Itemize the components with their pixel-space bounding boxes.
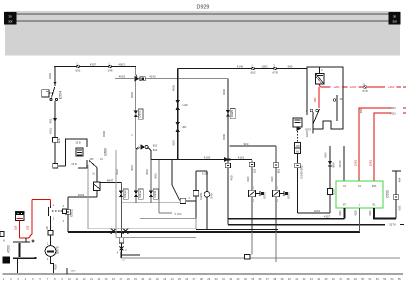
svg-text:4002: 4002	[172, 85, 176, 91]
svg-text:+201: +201	[333, 85, 340, 89]
svg-text:678: 678	[272, 71, 277, 75]
svg-text:4103: 4103	[173, 140, 176, 146]
svg-text:884: 884	[332, 162, 336, 167]
svg-text:481: 481	[49, 118, 53, 123]
svg-text:4003: 4003	[118, 62, 125, 66]
svg-text:401: 401	[182, 125, 187, 129]
svg-text:D925: D925	[230, 110, 234, 118]
svg-text:+201: +201	[388, 85, 395, 89]
svg-text:+251: +251	[390, 112, 396, 115]
svg-text:30: 30	[9, 14, 13, 18]
svg-text:862: 862	[277, 168, 281, 173]
svg-text:4301: 4301	[49, 128, 53, 134]
svg-text:D922: D922	[138, 110, 142, 118]
svg-text:601: 601	[75, 69, 80, 73]
svg-text:1 E8: 1 E8	[182, 103, 188, 107]
svg-text:15 R: 15 R	[71, 162, 77, 166]
svg-text:116: 116	[57, 138, 61, 143]
svg-text:D912: D912	[138, 190, 142, 198]
svg-text:810: 810	[153, 148, 158, 152]
svg-text:D913: D913	[123, 190, 127, 198]
svg-text:678: 678	[362, 89, 367, 93]
svg-text:150: 150	[26, 225, 30, 230]
svg-text:48: 48	[45, 226, 49, 229]
svg-text:15 B: 15 B	[75, 141, 81, 145]
svg-text:5 180: 5 180	[175, 212, 182, 216]
svg-text:A500: A500	[7, 245, 11, 253]
svg-text:602: 602	[250, 71, 255, 75]
svg-text:150: 150	[14, 225, 18, 230]
svg-text:810: 810	[153, 143, 158, 147]
svg-text:540: 540	[210, 193, 214, 198]
svg-text:4161: 4161	[238, 155, 245, 159]
svg-text:D500: D500	[386, 190, 390, 198]
svg-text:146: 146	[107, 69, 112, 73]
svg-text:30: 30	[393, 14, 397, 18]
svg-text:4103: 4103	[204, 155, 211, 159]
svg-text:682: 682	[398, 205, 402, 210]
svg-text:4157: 4157	[324, 214, 331, 218]
svg-text:4201: 4201	[314, 209, 321, 213]
svg-text:15V: 15V	[89, 158, 94, 161]
svg-text:G606: G606	[104, 148, 108, 156]
svg-text:484: 484	[398, 177, 402, 182]
svg-text:4147: 4147	[324, 152, 328, 158]
svg-text:31115: 31115	[338, 160, 342, 167]
svg-text:4140: 4140	[237, 64, 244, 68]
svg-text:4002: 4002	[222, 89, 226, 95]
svg-text:4110: 4110	[369, 210, 372, 216]
svg-text:4003: 4003	[78, 193, 85, 197]
svg-text:30f: 30f	[392, 20, 396, 24]
svg-text:G345 882: G345 882	[300, 165, 304, 179]
svg-text:4116: 4116	[355, 210, 358, 216]
svg-text:D911: D911	[153, 190, 157, 197]
svg-text:3115: 3115	[247, 176, 250, 182]
svg-text:116: 116	[253, 168, 257, 173]
svg-text:4501: 4501	[130, 165, 134, 171]
svg-text:G352: G352	[70, 209, 74, 217]
svg-text:4510: 4510	[153, 173, 157, 179]
svg-text:D929: D929	[197, 5, 210, 11]
svg-text:4142: 4142	[149, 75, 156, 79]
svg-text:15R: 15R	[313, 97, 317, 102]
svg-text:4502: 4502	[145, 169, 149, 175]
svg-text:4350: 4350	[54, 264, 58, 270]
svg-text:4112: 4112	[339, 210, 342, 216]
svg-text:E554: E554	[59, 91, 63, 99]
svg-text:+891: +891	[390, 107, 396, 110]
svg-text:30A: 30A	[372, 184, 377, 188]
svg-text:4302: 4302	[48, 73, 52, 79]
svg-text:4500: 4500	[222, 134, 226, 140]
svg-text:4307: 4307	[90, 62, 97, 66]
svg-text:15R1: 15R1	[354, 159, 358, 166]
svg-text:138: 138	[296, 145, 301, 148]
svg-text:8071: 8071	[286, 192, 290, 199]
svg-text:4847: 4847	[107, 178, 114, 182]
svg-text:910: 910	[244, 142, 249, 146]
svg-text:4002: 4002	[130, 92, 134, 98]
svg-text:4002: 4002	[119, 75, 126, 79]
svg-text:480: 480	[359, 108, 363, 113]
svg-text:3115: 3115	[271, 176, 274, 182]
svg-text:4207: 4207	[305, 128, 311, 132]
svg-text:B379: B379	[56, 246, 60, 254]
svg-text:1002: 1002	[261, 64, 268, 68]
svg-text:8072: 8072	[262, 192, 266, 199]
svg-text:G381: G381	[199, 192, 203, 200]
svg-text:1201: 1201	[350, 85, 357, 89]
svg-text:B28: B28	[332, 189, 336, 195]
svg-text:30f: 30f	[8, 20, 12, 24]
svg-text:4350: 4350	[71, 271, 77, 273]
svg-text:15R1: 15R1	[369, 159, 373, 166]
svg-text:640: 640	[288, 64, 293, 68]
svg-text:317V: 317V	[389, 223, 396, 227]
svg-text:460: 460	[230, 175, 234, 180]
svg-text:4500: 4500	[102, 131, 106, 137]
